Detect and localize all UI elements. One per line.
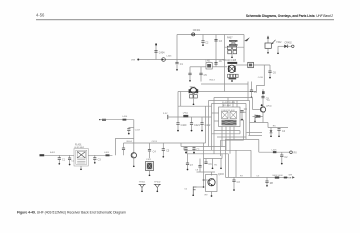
ground dot C2 [202,44,204,46]
rx line h139 [226,138,259,140]
transistor Q1 [228,65,236,72]
wire D1 gnd stub [277,46,279,52]
long v 228 [227,154,229,178]
wire D1 out [288,45,292,47]
choke stub tail [251,92,253,97]
rail cap149 stub [149,143,151,150]
capacitor rail163 [162,149,170,153]
filter pin down c [229,127,231,154]
q2 rail feed [203,143,205,159]
mesh h4 [221,139,244,141]
balun box b [194,95,198,98]
mesh h1 [214,130,240,132]
filter exit left b [214,120,219,122]
crystal FL2 ladder [222,120,237,126]
filter pin up c [232,101,234,108]
resistor box R3b [233,50,237,53]
capacitor c185 [186,163,194,167]
bypass capacitor 3 [200,123,211,127]
crystal FL1 X [77,152,85,158]
dot connector flag [192,194,194,196]
dot mesh win [241,119,243,121]
ground dot balun [193,103,195,105]
filter pin up b [227,98,229,108]
q2 top wire [197,171,216,173]
q3 emitter v [262,113,264,117]
q2 bypass v2 [199,167,201,172]
wire T1 up [267,38,269,43]
dot Y1 [149,174,151,176]
ground dot c185 [187,169,189,171]
filter pin down a [221,127,223,147]
transistor Q1 left [131,153,136,158]
svg-text:C421: C421 [194,124,200,127]
capacitor q2 bypass [198,166,201,168]
svg-text:L406: L406 [167,55,173,57]
resistor q3e [256,115,260,117]
svg-text:5 R410 C408: 5 R410 C408 [223,60,237,62]
wire C6 tail [269,73,271,77]
wire vertical x216 [215,35,217,67]
stair h4 [187,153,228,155]
capacitor front2 [68,158,71,160]
dot connector q3 [254,121,256,123]
svg-text:L404: L404 [122,116,128,118]
svg-text:R407: R407 [227,37,233,39]
ground dot C6 [269,77,271,79]
test point TP401 [139,182,147,193]
wire R403 vertical [155,45,157,60]
capacitor rail125 [122,148,125,150]
wire T1 down [267,48,269,52]
bias box top [115,137,133,139]
rect right v3 [245,104,247,140]
ground dot bypass 3 [201,130,203,132]
front wire a [44,154,74,156]
resistor bar 2 [229,44,238,45]
wire bus [168,116,212,118]
filter pin up a [222,104,224,108]
ground dot front2 [69,164,71,166]
junction dot q2 gnd [203,186,205,188]
trimmer arrow [272,40,276,44]
mesh h2 [212,133,241,135]
svg-text:RX: RX [294,152,298,154]
ground dot C1 [176,69,178,71]
rect left v6 [220,140,222,156]
svg-text:FL401: FL401 [75,144,82,146]
front cap1 stub [58,155,60,158]
mesh v r1 [239,131,241,134]
transistor Q2 [208,179,215,186]
capacitor C3b [214,60,222,64]
svg-text:4-56: 4-56 [36,13,45,18]
filter pin up d [236,101,238,108]
stair h3 [184,149,251,151]
rx v2576 [258,139,260,152]
ground dot br b [266,185,268,187]
wire C5 tail [200,75,202,82]
wire balun tail [193,98,195,104]
rect right v2 [249,101,251,136]
crystal FL2 ladder X [222,120,237,126]
q3 emitter h [253,115,264,117]
stair cap stub a [185,147,187,148]
wire vertical x224 [224,35,226,92]
wire bypass tail 1 [177,124,179,130]
wire left vertical [176,35,178,63]
junction dot cluster [231,56,233,58]
balun side a [189,89,191,93]
balun side b [196,89,198,93]
q2 cap stub [205,159,207,163]
front cap3 tail [94,159,96,162]
stair h2 [181,146,226,148]
wire bypass tail 3 [201,124,203,130]
rail cap163 stub [162,143,164,149]
q1 emitter [133,158,135,165]
balun box a [190,95,194,98]
wire D1 lead [278,45,284,47]
FL1 bottom pin [80,166,82,169]
ground dot bypass 1 [177,130,179,132]
arrow br [288,176,294,178]
ground dot stair a [185,152,187,154]
wire bypass tail 2 [191,124,193,130]
capacitor C6 [268,71,276,75]
wire cluster mid [231,54,233,57]
wire Q1 drain [236,64,248,66]
q2 base wire [204,179,208,181]
bypass capacitor 2 [190,123,201,127]
rect top 1 [214,97,253,99]
wire h106 [178,105,212,107]
rail cap163 tail [162,150,164,156]
long v 225 [225,139,227,177]
capacitor C5 [199,73,207,77]
svg-text:C404: C404 [159,52,165,55]
diode CR1 [191,33,195,36]
front wire b [88,154,112,156]
diode D2 [270,130,273,133]
rail cap125 stub [123,143,125,148]
long v 251 [250,150,252,177]
svg-text:TP401: TP401 [139,182,146,184]
diode d2 tail [270,133,272,136]
svg-text:L402: L402 [183,113,189,115]
svg-text:Q402: Q402 [266,106,272,108]
terminal ring rx [290,151,293,154]
choke tick [262,91,265,94]
if cap v [128,130,130,133]
svg-text:C410: C410 [258,77,264,79]
mesh h right a [247,132,263,134]
capacitor c279 [277,129,285,133]
diode d2 stub [270,128,272,131]
q3 emitter v2 [262,116,264,122]
if cap v0 [128,128,130,129]
svg-text:C417: C417 [135,130,141,132]
br drop a tail [233,182,235,190]
bias feed drop [247,82,249,101]
resistor box R3a [228,50,232,53]
capacitor br a [232,180,240,184]
ground dot front3 [94,162,96,164]
capacitor C2 [201,41,209,45]
rect top 3 [212,103,247,105]
svg-text:Schematic Diagrams, Overlays,: Schematic Diagrams, Overlays, and Parts … [246,14,333,18]
wire C4 stub [189,67,191,73]
wire top rail [177,34,244,36]
br drop a [233,177,235,180]
crystal Y1 tail [149,171,151,175]
q2 gnd wire [197,186,204,188]
if input terminal [99,119,106,121]
ground dot rail163 [162,156,164,158]
svg-text:9.3V: 9.3V [163,113,168,115]
ground dot FL1 [80,168,82,170]
resistor box R4b [230,74,232,77]
capacitor mesh win [240,108,247,112]
q3 base wire [253,109,260,111]
q2 cap185 v [187,154,189,163]
svg-text:E401: E401 [50,152,56,154]
resistor box R2b [233,46,237,49]
bead br [284,177,287,179]
svg-text:TP402: TP402 [154,182,161,184]
emitter rail [250,122,269,124]
rx input terminal [40,154,45,156]
svg-text:CR401: CR401 [193,29,201,32]
wire balun rail [178,91,256,93]
bottom rail [226,176,289,178]
resistor tick [229,78,237,80]
stair cap tail b [193,149,195,152]
q2 top pin [211,172,213,176]
capacitor C1 [175,62,183,66]
wire B1 wrap [256,65,264,92]
svg-text:Y402: Y402 [276,42,282,44]
svg-text:455 KHZ: 455 KHZ [223,105,232,107]
ground dot stair b [193,152,195,154]
stair cap tail a [185,149,187,152]
inductor if [123,119,127,121]
svg-text:FL402 FL403: FL402 FL403 [222,102,236,104]
svg-text:Q403: Q403 [218,174,224,176]
filter exit left a [212,112,219,114]
capacitor C3 [214,40,222,44]
svg-text:T401: T401 [190,87,196,89]
crystal filter FL2 outer [219,107,240,127]
ground dot if bias [128,133,130,135]
transistor Q2 box [206,175,218,192]
ground dot br a [233,189,235,191]
rect right v1 [252,98,254,110]
dot choke stub [251,96,253,98]
q2 stub b [212,159,214,168]
ground dot front1 [58,163,60,165]
dot q2 b [212,167,214,169]
ground dot cluster [231,80,233,82]
wire left drop a [177,92,179,118]
crystal Y1 box [146,162,154,171]
crystal FL2 xtal1 X [222,112,229,119]
test point TP402 [154,182,162,193]
capacitor front1 [58,158,66,162]
junction dot q2 base [203,179,205,181]
br drop b [266,177,268,181]
mixer box fill [249,64,252,67]
capacitor q3c [261,96,269,100]
cap c279 tail [278,130,280,135]
svg-text:CR402: CR402 [285,42,293,44]
terminal R403 [155,44,157,46]
q2 bypass v [199,159,201,166]
transistor Q3 [260,107,265,113]
resistor box R2a [227,46,231,49]
input terminal [137,58,139,60]
crystal FL1 hatch [77,160,85,163]
front cap2 tail [69,160,71,164]
stair v2 [183,147,185,151]
ground dot T1 [267,52,269,54]
svg-text:Y401: Y401 [146,159,152,161]
wire L1 to cluster [212,66,227,68]
capacitor C404 [154,51,165,55]
capacitor C4 [188,73,191,75]
capacitor choke stub [250,90,258,94]
rail cap149 tail [149,151,151,158]
inductor front [106,154,110,156]
mixer box B1 [248,62,254,67]
rail cap125 tail [123,150,125,156]
connector flag [193,187,196,195]
if v1338 [133,120,135,153]
resistor box R4d [236,74,238,77]
filter pin down d [233,127,235,141]
resistor bar top [229,40,238,41]
inductor L2 [183,115,188,117]
ground dot d2 [270,135,272,137]
long v 236 [235,150,237,177]
crystal filter FL1 inner [76,150,87,164]
ground dot D1 [277,52,279,54]
q2 cap185 v2 [187,165,189,169]
wire mid rail [190,66,206,68]
inductor L1 box [206,63,212,70]
if cap stub h [129,127,134,129]
ground dot bypass 2 [191,130,193,132]
wire C4 tail [189,75,191,81]
dot q2 bottom [211,195,213,197]
mesh h3 [217,136,246,138]
wire C5 stub [200,67,202,73]
arrow T1 [267,35,269,38]
inductor br [275,177,279,179]
resistor box R4c [233,74,235,77]
if input wire [100,119,134,121]
wire bypass stub 3 [201,117,203,123]
choke stub [251,82,253,91]
capacitor rail149 [148,150,156,154]
v268 [267,123,269,128]
crystal filter FL1 outer [74,149,88,167]
svg-text:C420: C420 [181,124,187,127]
q2 rail right v [221,154,223,159]
inductor L1 core [207,64,211,68]
wire C2 tail [202,42,204,44]
wire bypass stub 1 [177,117,179,123]
ground dot rx [281,163,283,165]
rx cap stub [281,152,283,155]
rx cap tail [281,157,283,163]
capacitor br b [265,181,273,185]
capacitor front3 [93,158,101,162]
agc line [268,127,288,129]
junction dot q3 top [261,104,263,106]
crystal Y1 fill [147,163,152,169]
stair cap stub b [193,147,195,148]
rect top 2 [209,100,250,102]
rx line [259,151,290,153]
stair v3 [186,150,188,154]
wire cluster tail [231,79,233,82]
crystal FL2 xtal2 X [230,112,237,119]
capacitor rx [280,155,288,159]
capacitor if bias [127,129,130,131]
q2 rail [204,158,223,160]
cluster X marks [231,42,237,45]
crystal FL2 xtal2 [230,112,237,119]
power flag [244,35,250,63]
diode CR2 [162,58,166,62]
capacitor q2a [204,162,212,166]
ground dot c279 [278,135,280,137]
crystal FL2 xtal1 [222,112,229,119]
front cap2 stub [69,155,71,158]
balun ring [190,88,196,93]
dot q2 c [220,167,222,169]
capacitor stair a [184,148,187,150]
mesh h right b [249,135,263,137]
svg-text:L401: L401 [205,60,211,62]
crystal Y1 X [147,163,152,169]
wire C2 stub [202,35,204,41]
wire left vertical lower [176,65,178,70]
bus terminal [167,115,169,119]
bias box left [114,138,116,155]
q2 left v [203,159,205,188]
bypass capacitor 1 [176,123,187,127]
rect left v2 [208,101,210,147]
mesh win tail [241,112,243,119]
svg-text:Figure 4-49. UHF (403-512MHz): Figure 4-49. UHF (403-512MHz) Receiver B… [17,210,126,214]
connector flag q3 [255,115,258,121]
wire C6 stub [269,65,271,71]
front cap3 stub [94,155,96,158]
ground dot C4 [189,80,191,82]
svg-text:L405: L405 [272,149,278,151]
rect left v3 [211,104,213,151]
stair v1 [180,143,182,147]
rect left v1 [205,106,207,143]
trimmer T1 [265,43,271,48]
svg-text:44.85 MHZ: 44.85 MHZ [74,147,85,149]
q2 bottom pin [211,192,213,196]
q3 collector v [262,89,264,106]
stair h1 [124,142,206,144]
terminal ring D1 [292,45,295,48]
